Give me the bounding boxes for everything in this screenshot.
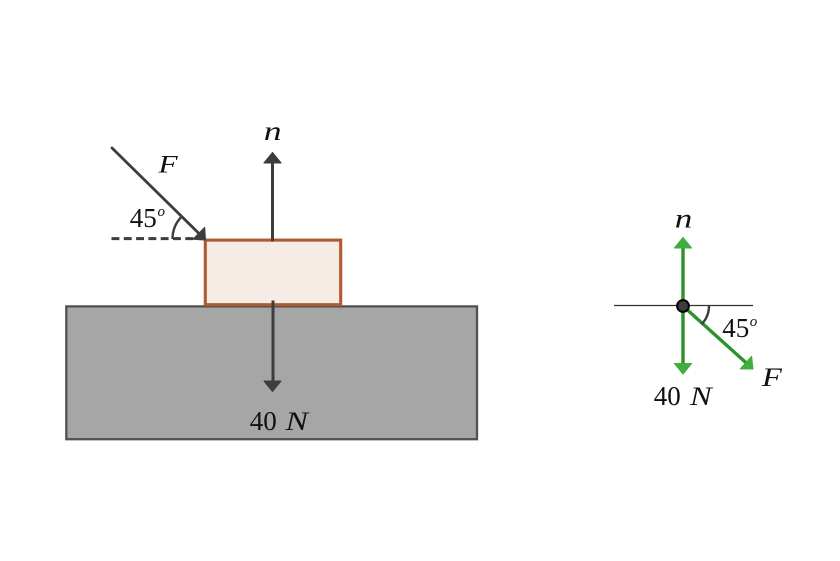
free body diagram: horizontal axis line	[614, 305, 753, 307]
svg-text:40: 40	[654, 381, 681, 411]
svg-text:N: N	[284, 407, 310, 436]
svg-text:F: F	[761, 364, 783, 392]
dashed horizontal reference line	[112, 237, 205, 240]
svg-text:F: F	[157, 151, 178, 178]
normal force arrow n (left)	[264, 153, 281, 242]
svg-text:40: 40	[250, 406, 277, 436]
svg-text:o: o	[158, 204, 166, 220]
svg-text:n: n	[264, 116, 282, 146]
angle arc 45 deg (left)	[173, 216, 182, 239]
svg-text:N: N	[689, 383, 713, 411]
applied force arrow F (left, 45 degrees)	[112, 148, 206, 240]
svg-text:45: 45	[722, 313, 749, 343]
svg-text:45: 45	[130, 203, 157, 233]
table slab (gray block)	[66, 306, 477, 439]
FBD origin dot	[677, 300, 689, 312]
svg-text:o: o	[750, 314, 758, 330]
FBD applied force arrow F (green, 45 deg down-right)	[683, 306, 753, 369]
svg-text:n: n	[675, 203, 693, 233]
FBD weight arrow 40N (green down)	[674, 306, 691, 374]
FBD angle arc 45 deg	[701, 306, 709, 324]
block (orange box on table)	[205, 240, 340, 305]
weight arrow 40N (left)	[264, 301, 281, 392]
FBD normal arrow n (green up)	[674, 238, 691, 307]
